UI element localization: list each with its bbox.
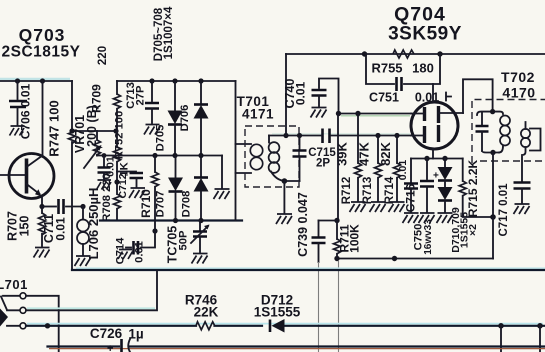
potentiometer VR701 [84,131,102,168]
wire detector bottom rail [100,219,242,221]
svg-text:Q704: Q704 [394,4,446,26]
ground below bypass capacitor [97,180,112,190]
node gate2 C740 [336,111,341,116]
resistor R710 [152,156,159,221]
svg-text:R755: R755 [371,61,402,76]
diode D709 [438,159,453,181]
node tank bottom [490,150,495,155]
wire box bottom edge [72,269,545,271]
svg-text:R712: R712 [341,177,353,205]
svg-text:82K: 82K [378,141,393,165]
wire gate2 line [339,113,412,115]
ground below C717 [514,204,530,214]
svg-text:1S1555: 1S1555 [254,305,301,320]
ground below R707 [34,248,50,258]
ground below T701 secondary [276,181,292,224]
scan tint above box bottom [76,267,545,269]
svg-text:R710: R710 [139,189,153,218]
capacitor C750 electrolytic [420,159,439,213]
wire Q703 emitter down [41,197,43,207]
svg-text:220: 220 [97,46,109,65]
wire T701 feed vertical [235,81,237,221]
wire pin2 run [26,270,157,310]
svg-text:C717 0.01: C717 0.01 [498,183,510,237]
node top rail D706 [198,78,203,83]
wire left vertical drop with resistor R747 body [71,81,73,270]
svg-text:D705: D705 [155,125,167,152]
capacitor C706 [9,81,27,125]
connector L701 leads [1,296,20,326]
node tank top [490,109,495,114]
ground stub right of D708 [214,156,230,200]
capacitor C713 [145,81,159,123]
node gate2 39K [355,111,360,116]
connector L701 wedge [0,309,8,327]
resistor R708 [114,194,121,221]
wire thin vertical R711 down [338,261,340,352]
wire drain rail riser [285,54,287,136]
ground below C712 [129,188,145,198]
transformer T701 secondary winding [269,136,285,182]
svg-text:T702: T702 [501,69,535,85]
svg-text:180: 180 [412,61,434,76]
svg-text:4170: 4170 [502,85,535,101]
transformer T702 tank bottom wire [482,151,499,153]
node mid rail D706 [198,153,203,158]
node emitter [39,204,44,209]
wire T701 primary bottom stub [236,172,252,174]
svg-text:R715 2.2K: R715 2.2K [466,159,480,217]
wire Q704 drain up [432,84,434,103]
capacitor C726 electrolytic [107,339,130,352]
wire C739 stub [319,220,338,222]
polarity tick after C751 [446,93,451,101]
transistor Q704 FET [411,102,463,149]
node C714 tap [152,228,157,233]
capacitor C751 parallel branch [366,54,440,91]
svg-text:0.01: 0.01 [105,156,117,177]
trimmer TC705 [191,221,210,253]
wire drop x501 [500,326,502,352]
node AGC rail mid [392,256,397,261]
capacitor C739 [312,221,326,263]
node gate line x286 [283,133,288,138]
wire gate2 node down to R711 node [337,114,339,221]
capacitor T702 tank [476,113,489,151]
wire drop x540 [539,326,541,352]
wire Q703 base lead [0,174,25,176]
node drain rail R755 right [437,51,442,56]
svg-text:C726: C726 [90,326,123,341]
diode D710 [438,181,453,212]
capacitor C712 [117,172,143,188]
node T701 secondary bottom [282,178,288,184]
svg-text:39K: 39K [335,141,350,165]
node pin3 rail x540 [537,323,543,329]
node C712 tap [114,179,119,184]
ground below C716 [403,213,419,223]
wire T702 to detector drop [492,153,494,218]
node pin3 rail x501 [498,323,504,329]
svg-text:D708: D708 [181,191,193,218]
svg-text:C706 0.01: C706 0.01 [19,83,33,139]
node gate line 47K [375,133,380,138]
connector L701 pin 1 [20,293,26,299]
svg-text:C739 0.047: C739 0.047 [296,192,310,257]
wire Q703 collector to top rail [42,81,44,156]
scan tint above gate wire [272,133,410,135]
transistor Q703 [9,154,54,199]
ground below R712 [350,202,366,212]
node R711 top [334,218,339,223]
scan tint above top-left wire [0,78,70,80]
svg-text:2P: 2P [316,158,330,170]
svg-text:150: 150 [18,216,32,237]
node bottom rail D707 [173,218,178,223]
transformer T701 dashed box [245,126,299,187]
node L706 top [80,204,85,209]
wire top rail right segment [117,80,236,82]
wire detector down [492,217,494,259]
node top rail C713 [149,78,154,83]
node source rail C750 [424,156,429,161]
resistor R712 39K [355,114,362,202]
resistor R709 [114,81,121,147]
diode D708 [194,156,209,221]
svg-text:L701: L701 [0,277,28,292]
svg-text:Q703: Q703 [19,25,66,45]
diode D706 [194,81,209,156]
ground below R714 [389,202,405,212]
svg-text:D707: D707 [155,191,167,218]
resistor R714 82K [394,136,401,202]
svg-text:C751: C751 [369,91,399,105]
scan tint above pin2 wire [27,307,155,309]
capacitor C716 [404,159,418,213]
svg-text:47K: 47K [357,141,372,165]
diode D707 [168,156,183,221]
transformer T702 secondary winding [521,122,530,181]
transformer T702 secondary bracket [530,129,541,151]
node bias left [69,128,74,133]
resistor R746 [196,322,215,330]
svg-text:×2: ×2 [467,224,479,236]
svg-text:4171: 4171 [242,107,274,122]
connector L701 pin 3 [20,323,26,329]
wire pin1 run [26,296,59,352]
resistor R747 [69,129,76,143]
node bias right [113,128,118,133]
node top rail D705 [172,78,177,83]
node gate line 82K [394,133,399,138]
node top rail collector [40,78,45,83]
ground left of C714 [118,250,133,260]
svg-text:R747 100: R747 100 [47,100,62,156]
capacitor tank 2P vertical [293,136,307,182]
ground below L706 [75,256,91,266]
svg-text:1S1007×4: 1S1007×4 [163,6,175,59]
transformer T702 dashed box [472,100,545,164]
transformer T702 tank top wire [477,112,503,115]
node mid rail bypass [102,153,107,158]
svg-text:R714: R714 [384,176,396,204]
capacitor C717 [514,183,531,204]
resistor R713 47K [375,136,382,202]
ground below TC705 [192,254,208,264]
wire pin3 run [26,325,545,327]
wire thin vertical C739 down [318,262,320,352]
svg-text:0.01: 0.01 [134,241,146,263]
svg-text:L706 250µH: L706 250µH [86,188,101,260]
resistor R707 [39,207,46,247]
svg-text:3SK59Y: 3SK59Y [388,24,462,45]
svg-text:C716: C716 [404,183,418,212]
ground below C713 [144,125,160,135]
ground below C750 [419,213,435,223]
ground below R713 [370,202,386,212]
svg-text:0.01: 0.01 [54,217,68,241]
wire T701 primary top stub [236,143,252,145]
svg-text:50P: 50P [178,230,190,250]
scan tint gate2 wire [341,115,410,117]
capacitor C714 [126,221,155,255]
capacitor C711 in emitter line [42,199,83,214]
svg-text:22K: 22K [194,305,219,320]
wire bias node horizontal [72,130,116,132]
inductor T702 tank coil [499,116,510,153]
node mid rail D705 [172,153,177,158]
wire Q704 source down [432,149,434,159]
svg-text:R713: R713 [362,177,374,205]
resistor R755 [393,50,414,58]
diode D705 [168,81,183,156]
transformer T701 primary winding [250,144,262,169]
node bottom rail D708 [198,218,203,223]
svg-text:R752 100: R752 100 [114,111,126,160]
svg-text:1K: 1K [119,162,131,176]
scan tint above pin3 wire [27,323,543,325]
wire AGC bottom rail [337,258,493,260]
resistor R711 [334,221,341,259]
node gate line cap tap [297,133,302,138]
resistor R752 [114,147,121,194]
node mid rail R710 [152,153,157,158]
wire secondary bottom to C715 line [284,180,299,182]
node top rail C706 [15,78,20,83]
svg-text:100K: 100K [348,224,362,253]
wire main gate line [269,135,411,137]
svg-text:0.01: 0.01 [294,81,308,105]
svg-text:C714: C714 [115,237,127,265]
ground below C740 [311,108,327,118]
diode D712 [270,319,285,333]
wire source rail [411,158,463,160]
node detector junction [490,214,496,220]
wire T702 link jumper [463,79,493,113]
ground below D710 [437,213,453,223]
node drain rail R755 left [362,51,367,56]
svg-text:2SC1815Y: 2SC1815Y [2,44,81,61]
scan tint below bottom wire [49,348,545,350]
inductor L706 [77,207,89,256]
resistor R715 [459,159,493,218]
svg-text:+: + [107,343,113,352]
node AGC rail left [334,256,339,261]
connector L701 pin 2 [20,307,26,313]
capacitor C715 series [323,129,330,144]
wire top rail left segment [0,80,72,82]
svg-text:D706: D706 [179,105,191,132]
node pin3 tap [45,323,50,328]
svg-text:0.01: 0.01 [397,160,409,181]
capacitor bypass 0.01 [98,156,111,180]
wire detector mid rail [97,155,222,157]
svg-text:27P: 27P [135,85,147,105]
svg-text:R709: R709 [90,84,104,113]
wire drain top rail [286,53,545,55]
node source rail diodes [442,156,447,161]
svg-text:16wv33: 16wv33 [423,219,434,255]
ground below C706 [10,126,25,136]
capacitor C740 [312,79,339,114]
wire bottom run [48,345,545,347]
